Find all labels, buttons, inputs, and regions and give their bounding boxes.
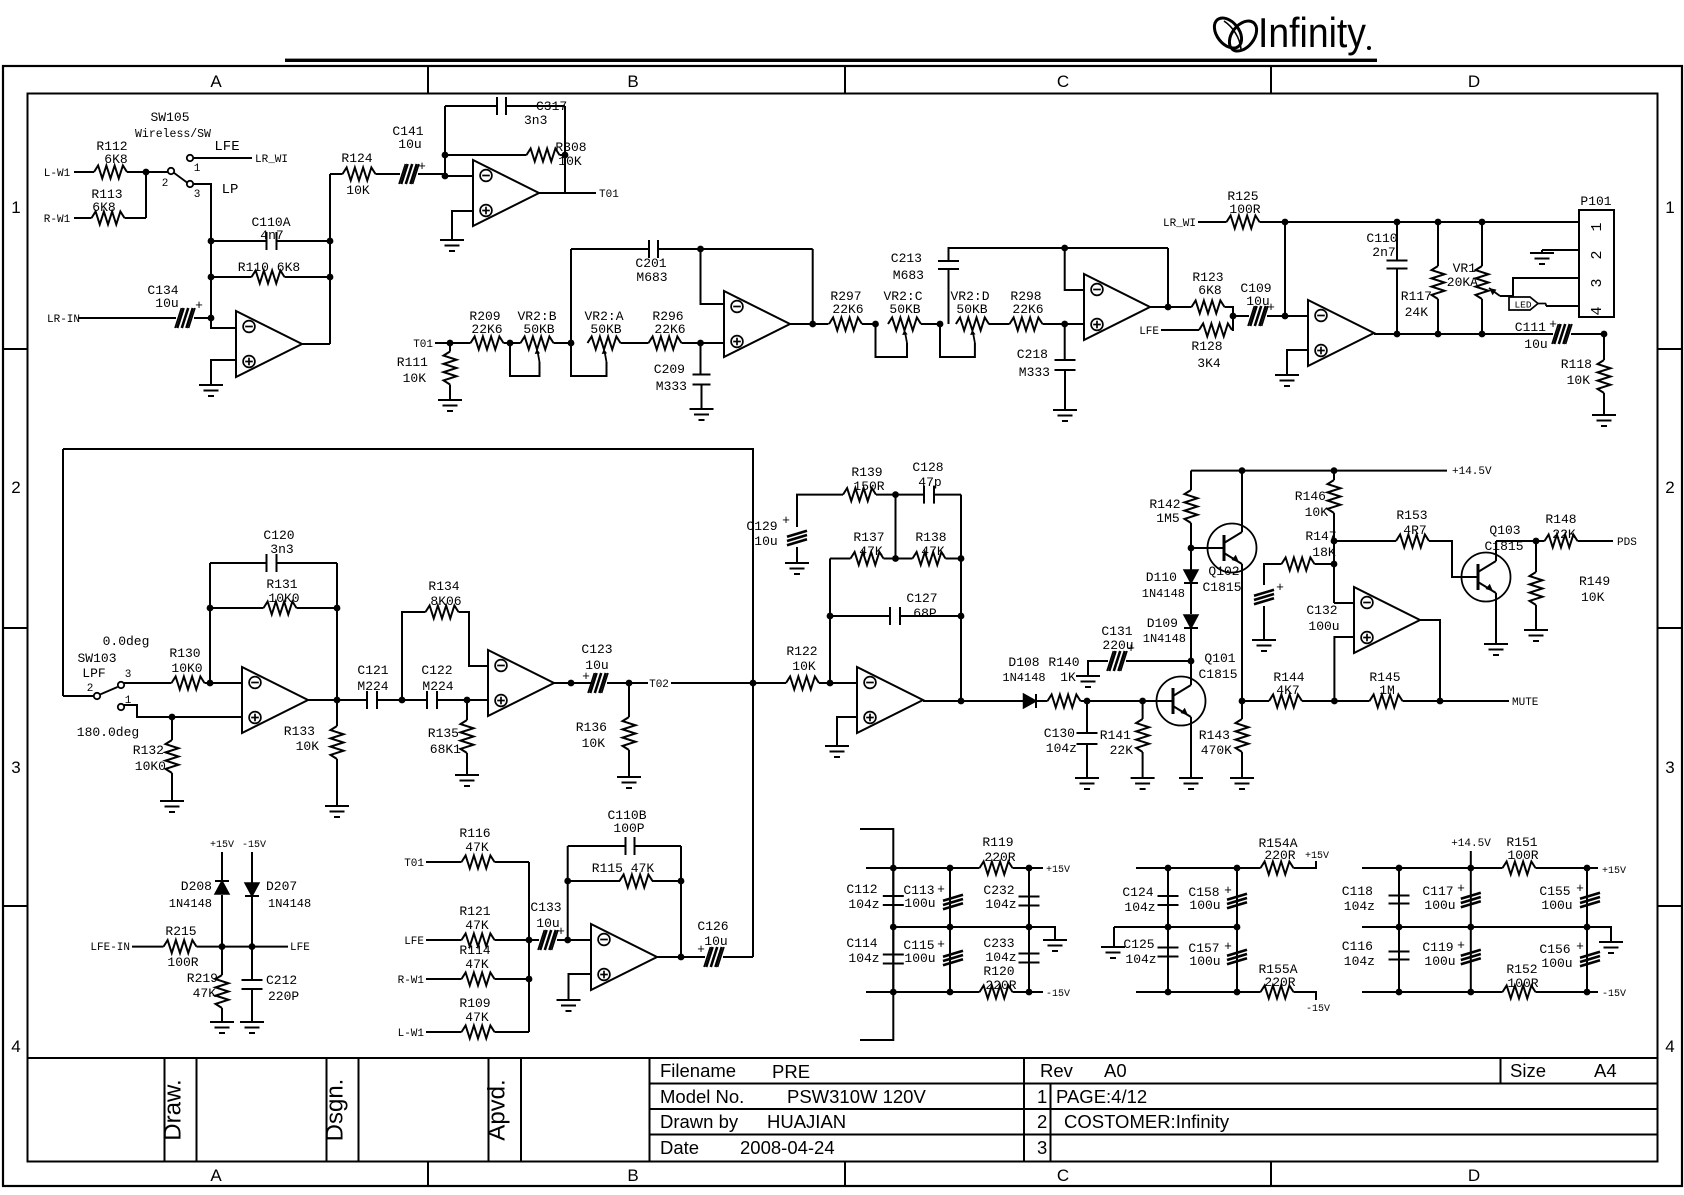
svg-text:2: 2 — [1665, 478, 1674, 497]
svg-text:Draw.: Draw. — [160, 1079, 187, 1140]
svg-text:+14.5V: +14.5V — [1451, 838, 1491, 850]
svg-text:C212: C212 — [266, 973, 297, 988]
svg-text:COSTOMER:Infinity: COSTOMER:Infinity — [1064, 1111, 1230, 1132]
svg-text:+: + — [697, 942, 705, 957]
svg-text:C: C — [1057, 72, 1069, 91]
svg-text:M224: M224 — [357, 679, 388, 694]
svg-text:Filename: Filename — [660, 1060, 736, 1081]
svg-text:C110: C110 — [1366, 231, 1397, 246]
svg-text:3n3: 3n3 — [524, 113, 547, 128]
svg-text:R219: R219 — [187, 971, 218, 986]
svg-text:104z: 104z — [1344, 899, 1375, 914]
svg-text:T01: T01 — [413, 339, 433, 351]
svg-text:C123: C123 — [581, 642, 612, 657]
svg-text:100u: 100u — [1189, 954, 1220, 969]
svg-text:+: + — [418, 159, 426, 174]
svg-text:VR1: VR1 — [1453, 261, 1477, 276]
svg-text:+: + — [937, 937, 945, 952]
svg-text:+: + — [1127, 641, 1135, 656]
svg-text:R116: R116 — [459, 826, 490, 841]
svg-text:220R: 220R — [1264, 975, 1295, 990]
svg-text:A: A — [210, 1166, 222, 1185]
svg-text:10K: 10K — [296, 739, 320, 754]
svg-text:+15V: +15V — [210, 840, 234, 851]
svg-text:104z: 104z — [1344, 954, 1375, 969]
svg-text:R120: R120 — [983, 964, 1014, 979]
svg-text:C213: C213 — [891, 251, 922, 266]
svg-text:100P: 100P — [613, 821, 644, 836]
svg-text:C1815: C1815 — [1198, 667, 1237, 682]
svg-text:-15V: -15V — [1306, 1004, 1330, 1015]
svg-text:4: 4 — [1665, 1037, 1674, 1056]
svg-text:M333: M333 — [1019, 365, 1050, 380]
svg-text:Model No.: Model No. — [660, 1086, 744, 1107]
svg-text:10K0: 10K0 — [268, 591, 299, 606]
svg-text:C129: C129 — [746, 519, 777, 534]
svg-text:A: A — [210, 72, 222, 91]
svg-text:104z: 104z — [1124, 900, 1155, 915]
svg-text:3n3: 3n3 — [270, 542, 293, 557]
svg-text:10u: 10u — [704, 934, 727, 949]
svg-text:R130: R130 — [169, 646, 200, 661]
svg-text:3: 3 — [11, 758, 20, 777]
svg-text:R121: R121 — [459, 904, 490, 919]
svg-text:T01: T01 — [404, 858, 424, 870]
svg-text:100R: 100R — [167, 955, 198, 970]
svg-text:LP: LP — [222, 182, 239, 198]
svg-text:68P: 68P — [913, 606, 937, 621]
svg-text:LFE-IN: LFE-IN — [90, 942, 130, 954]
svg-text:R153: R153 — [1396, 508, 1427, 523]
svg-text:R-W1: R-W1 — [44, 214, 71, 226]
svg-text:C132: C132 — [1306, 603, 1337, 618]
svg-text:R119: R119 — [982, 835, 1013, 850]
svg-text:Dsgn.: Dsgn. — [322, 1079, 349, 1142]
svg-text:47K: 47K — [465, 957, 489, 972]
svg-text:100u: 100u — [1424, 954, 1455, 969]
svg-text:R138: R138 — [915, 530, 946, 545]
svg-text:104z: 104z — [1125, 952, 1156, 967]
svg-text:C114: C114 — [846, 936, 877, 951]
svg-text:1K: 1K — [1060, 670, 1076, 685]
svg-text:D109: D109 — [1147, 616, 1178, 631]
svg-text:+: + — [582, 669, 590, 684]
svg-text:10u: 10u — [398, 137, 421, 152]
svg-text:L-W1: L-W1 — [44, 168, 71, 180]
svg-text:10K: 10K — [582, 736, 606, 751]
svg-text:+: + — [937, 882, 945, 897]
svg-text:1: 1 — [1037, 1086, 1047, 1107]
svg-text:10K: 10K — [792, 659, 816, 674]
svg-text:+: + — [1457, 938, 1465, 953]
svg-text:C209: C209 — [654, 362, 685, 377]
svg-text:47K: 47K — [465, 918, 489, 933]
svg-text:M683: M683 — [893, 268, 924, 283]
svg-text:C124: C124 — [1122, 885, 1153, 900]
svg-text:+: + — [1576, 939, 1584, 954]
svg-text:20KA: 20KA — [1447, 275, 1478, 290]
svg-text:4K7: 4K7 — [1276, 683, 1299, 698]
svg-text:R146: R146 — [1295, 489, 1326, 504]
svg-text:MUTE: MUTE — [1512, 697, 1539, 709]
svg-text:22K6: 22K6 — [1012, 302, 1043, 317]
svg-text:180.0deg: 180.0deg — [77, 725, 139, 740]
svg-text:Wireless/SW: Wireless/SW — [135, 128, 211, 141]
svg-text:C126: C126 — [697, 919, 728, 934]
svg-text:+: + — [1224, 883, 1232, 898]
svg-text:18K: 18K — [1312, 545, 1336, 560]
svg-text:C130: C130 — [1044, 726, 1075, 741]
svg-text:PAGE:4/12: PAGE:4/12 — [1056, 1086, 1147, 1107]
svg-text:10u: 10u — [155, 296, 178, 311]
svg-text:+: + — [1276, 580, 1284, 595]
svg-text:D: D — [1468, 72, 1480, 91]
svg-text:+15V: +15V — [1602, 866, 1626, 877]
svg-text:50KB: 50KB — [523, 322, 554, 337]
svg-text:22K: 22K — [1552, 527, 1576, 542]
svg-text:2: 2 — [11, 478, 20, 497]
svg-text:R147: R147 — [1305, 529, 1336, 544]
svg-text:3K4: 3K4 — [1197, 356, 1221, 371]
svg-text:1: 1 — [1665, 198, 1674, 217]
svg-text:47K: 47K — [465, 1010, 489, 1025]
svg-text:R215: R215 — [165, 924, 196, 939]
svg-text:C116: C116 — [1342, 939, 1373, 954]
svg-text:HUAJIAN: HUAJIAN — [767, 1111, 846, 1132]
svg-text:10K0: 10K0 — [135, 759, 166, 774]
svg-text:R152: R152 — [1506, 962, 1537, 977]
svg-text:104z: 104z — [848, 951, 879, 966]
svg-text:R134: R134 — [428, 579, 459, 594]
svg-text:R148: R148 — [1545, 512, 1576, 527]
svg-text:LPF: LPF — [82, 666, 105, 681]
svg-text:-15V: -15V — [242, 840, 266, 851]
svg-text:1N4148: 1N4148 — [268, 897, 311, 911]
svg-text:50KB: 50KB — [889, 302, 920, 317]
svg-text:22K6: 22K6 — [654, 322, 685, 337]
svg-text:1: 1 — [125, 695, 132, 707]
svg-text:1N4148: 1N4148 — [169, 897, 212, 911]
svg-text:220P: 220P — [268, 989, 299, 1004]
svg-text:100u: 100u — [1308, 619, 1339, 634]
svg-text:R-W1: R-W1 — [398, 975, 425, 987]
svg-text:C201: C201 — [635, 256, 666, 271]
svg-text:2: 2 — [162, 178, 169, 190]
svg-text:100u: 100u — [1541, 898, 1572, 913]
svg-text:4R7: 4R7 — [1403, 523, 1426, 538]
svg-text:Apvd.: Apvd. — [484, 1079, 511, 1140]
svg-text:B: B — [627, 72, 638, 91]
svg-text:LFE: LFE — [404, 936, 424, 948]
svg-text:C155: C155 — [1539, 884, 1570, 899]
svg-text:T02: T02 — [649, 679, 669, 691]
svg-text:LFE: LFE — [1139, 326, 1159, 338]
svg-text:R140: R140 — [1048, 655, 1079, 670]
svg-text:A0: A0 — [1104, 1060, 1127, 1081]
svg-text:100u: 100u — [1424, 898, 1455, 913]
svg-text:C156: C156 — [1539, 942, 1570, 957]
svg-text:LFE: LFE — [214, 139, 239, 155]
svg-text:R111: R111 — [397, 355, 428, 370]
svg-text:10K: 10K — [346, 183, 370, 198]
svg-text:+: + — [1224, 939, 1232, 954]
svg-text:LFE: LFE — [290, 942, 310, 954]
svg-text:100u: 100u — [904, 896, 935, 911]
svg-text:M224: M224 — [422, 679, 453, 694]
svg-text:T01: T01 — [599, 189, 619, 201]
svg-text:+: + — [1267, 300, 1275, 315]
svg-text:C131: C131 — [1101, 624, 1132, 639]
svg-text:Drawn by: Drawn by — [660, 1111, 739, 1132]
svg-text:C218: C218 — [1017, 347, 1048, 362]
svg-text:100u: 100u — [904, 951, 935, 966]
svg-text:R142: R142 — [1149, 497, 1180, 512]
svg-text:4n7: 4n7 — [260, 228, 283, 243]
svg-text:D108: D108 — [1008, 655, 1039, 670]
svg-text:R143: R143 — [1199, 728, 1230, 743]
svg-text:104z: 104z — [1046, 741, 1077, 756]
svg-text:6K8: 6K8 — [92, 200, 115, 215]
svg-text:P101: P101 — [1580, 194, 1611, 209]
svg-text:C119: C119 — [1422, 940, 1453, 955]
svg-text:150R: 150R — [853, 479, 884, 494]
svg-text:68K1: 68K1 — [430, 742, 461, 757]
svg-text:10K: 10K — [1581, 590, 1605, 605]
svg-text:PRE: PRE — [772, 1061, 810, 1082]
svg-text:6K8: 6K8 — [104, 152, 127, 167]
svg-text:10u: 10u — [754, 534, 777, 549]
svg-text:10u: 10u — [1524, 337, 1547, 352]
svg-text:LR_WI: LR_WI — [255, 154, 288, 166]
svg-text:R131: R131 — [266, 577, 297, 592]
svg-text:D207: D207 — [266, 879, 297, 894]
svg-text:R109: R109 — [459, 996, 490, 1011]
svg-text:C: C — [1057, 1166, 1069, 1185]
svg-text:C127: C127 — [906, 591, 937, 606]
svg-text:8K06: 8K06 — [430, 594, 461, 609]
svg-text:0.0deg: 0.0deg — [103, 634, 150, 649]
svg-text:50KB: 50KB — [956, 302, 987, 317]
svg-text:10K: 10K — [1305, 505, 1329, 520]
svg-text:M683: M683 — [636, 270, 667, 285]
svg-text:3: 3 — [1665, 758, 1674, 777]
svg-text:24K: 24K — [1405, 305, 1429, 320]
svg-text:M333: M333 — [656, 379, 687, 394]
svg-text:LR-IN: LR-IN — [47, 314, 80, 326]
svg-text:+15V: +15V — [1046, 865, 1070, 876]
svg-text:R128: R128 — [1191, 339, 1222, 354]
svg-text:3: 3 — [1589, 278, 1606, 287]
svg-text:Size: Size — [1510, 1060, 1546, 1081]
svg-text:R118: R118 — [1561, 357, 1592, 372]
svg-text:R133: R133 — [284, 724, 315, 739]
svg-text:Q103: Q103 — [1489, 523, 1520, 538]
svg-text:50KB: 50KB — [590, 322, 621, 337]
svg-text:C120: C120 — [263, 528, 294, 543]
svg-text:L-W1: L-W1 — [398, 1028, 425, 1040]
svg-text:C122: C122 — [421, 663, 452, 678]
svg-text:Rev: Rev — [1040, 1060, 1074, 1081]
svg-text:PSW310W 120V: PSW310W 120V — [787, 1086, 926, 1107]
svg-text:R135: R135 — [428, 726, 459, 741]
svg-text:R114: R114 — [459, 943, 490, 958]
svg-text:47K: 47K — [921, 544, 945, 559]
svg-text:22K6: 22K6 — [471, 322, 502, 337]
svg-text:+14.5V: +14.5V — [1452, 466, 1492, 478]
svg-text:1: 1 — [194, 163, 201, 175]
svg-text:R110 6K8: R110 6K8 — [238, 260, 300, 275]
svg-text:100R: 100R — [1507, 976, 1538, 991]
svg-text:100R: 100R — [1507, 848, 1538, 863]
svg-text:2008-04-24: 2008-04-24 — [740, 1137, 835, 1158]
svg-text:R308: R308 — [555, 140, 586, 155]
svg-text:+: + — [195, 298, 203, 313]
svg-text:Q101: Q101 — [1204, 651, 1235, 666]
svg-text:1N4148: 1N4148 — [1143, 632, 1186, 646]
svg-text:104z: 104z — [985, 897, 1016, 912]
svg-text:100R: 100R — [1229, 202, 1260, 217]
svg-text:R149: R149 — [1579, 574, 1610, 589]
svg-text:2: 2 — [1589, 250, 1606, 259]
svg-text:6K8: 6K8 — [1198, 283, 1221, 298]
svg-text:C118: C118 — [1342, 884, 1373, 899]
svg-text:C233: C233 — [983, 936, 1014, 951]
svg-text:10K: 10K — [1567, 373, 1591, 388]
svg-text:1: 1 — [11, 198, 20, 217]
svg-text:2n7: 2n7 — [1372, 245, 1395, 260]
svg-text:4: 4 — [1589, 306, 1606, 315]
svg-text:C128: C128 — [912, 460, 943, 475]
svg-text:220R: 220R — [985, 978, 1016, 993]
svg-text:R137: R137 — [853, 530, 884, 545]
svg-text:3: 3 — [125, 669, 132, 681]
svg-text:LED: LED — [1514, 300, 1531, 311]
svg-text:1: 1 — [1589, 222, 1606, 231]
svg-text:SW103: SW103 — [77, 651, 116, 666]
svg-text:R139: R139 — [851, 465, 882, 480]
svg-text:1N4148: 1N4148 — [1002, 671, 1045, 685]
svg-text:2: 2 — [1037, 1111, 1047, 1132]
svg-text:C232: C232 — [983, 883, 1014, 898]
svg-text:4: 4 — [11, 1037, 20, 1056]
svg-text:-15V: -15V — [1046, 989, 1070, 1000]
svg-text:104z: 104z — [985, 950, 1016, 965]
svg-text:47K: 47K — [193, 986, 217, 1001]
svg-text:3: 3 — [194, 189, 201, 201]
svg-text:2: 2 — [87, 683, 94, 695]
svg-text:+: + — [1576, 881, 1584, 896]
svg-text:R132: R132 — [133, 743, 164, 758]
svg-text:LR_WI: LR_WI — [1163, 218, 1196, 230]
svg-text:R117: R117 — [1401, 289, 1432, 304]
svg-text:22K: 22K — [1110, 743, 1134, 758]
svg-text:220R: 220R — [984, 850, 1015, 865]
svg-text:1M5: 1M5 — [1156, 511, 1179, 526]
svg-text:1N4148: 1N4148 — [1142, 587, 1185, 601]
svg-text:A4: A4 — [1594, 1060, 1617, 1081]
svg-text:SW105: SW105 — [150, 110, 189, 125]
svg-text:104z: 104z — [848, 897, 879, 912]
svg-text:+15V: +15V — [1305, 851, 1329, 862]
svg-text:+: + — [557, 924, 565, 939]
svg-text:+: + — [1549, 317, 1557, 332]
svg-text:B: B — [627, 1166, 638, 1185]
svg-text:1M: 1M — [1379, 683, 1395, 698]
svg-text:10K: 10K — [558, 154, 582, 169]
svg-text:Infinity: Infinity — [1258, 9, 1366, 56]
svg-text:+: + — [782, 513, 790, 528]
svg-text:10K: 10K — [403, 371, 427, 386]
svg-text:470K: 470K — [1201, 743, 1232, 758]
svg-text:R115 47K: R115 47K — [592, 861, 655, 876]
svg-text:R136: R136 — [576, 720, 607, 735]
svg-text:Q102: Q102 — [1208, 564, 1239, 579]
svg-text:Date: Date — [660, 1137, 699, 1158]
svg-text:C1815: C1815 — [1202, 580, 1241, 595]
svg-text:47K: 47K — [465, 840, 489, 855]
svg-text:D: D — [1468, 1166, 1480, 1185]
svg-text:3: 3 — [1037, 1137, 1047, 1158]
svg-text:C133: C133 — [530, 900, 561, 915]
svg-text:R141: R141 — [1100, 728, 1131, 743]
svg-text:C317: C317 — [536, 99, 567, 114]
svg-text:+: + — [1457, 881, 1465, 896]
svg-text:D208: D208 — [181, 879, 212, 894]
svg-text:R124: R124 — [341, 151, 372, 166]
svg-text:C111: C111 — [1515, 320, 1546, 335]
svg-text:220R: 220R — [1264, 848, 1295, 863]
svg-text:C121: C121 — [357, 663, 388, 678]
svg-text:22K6: 22K6 — [832, 302, 863, 317]
svg-text:C125: C125 — [1123, 937, 1154, 952]
svg-text:D110: D110 — [1146, 570, 1177, 585]
svg-text:PDS: PDS — [1617, 537, 1637, 549]
svg-text:-15V: -15V — [1602, 989, 1626, 1000]
svg-text:10K0: 10K0 — [171, 661, 202, 676]
svg-text:R122: R122 — [786, 644, 817, 659]
svg-text:100u: 100u — [1541, 956, 1572, 971]
svg-text:47p: 47p — [918, 475, 941, 490]
svg-text:C1815: C1815 — [1484, 539, 1523, 554]
svg-text:100u: 100u — [1189, 898, 1220, 913]
svg-text:C112: C112 — [846, 882, 877, 897]
svg-text:47K: 47K — [859, 544, 883, 559]
svg-text:C117: C117 — [1422, 884, 1453, 899]
